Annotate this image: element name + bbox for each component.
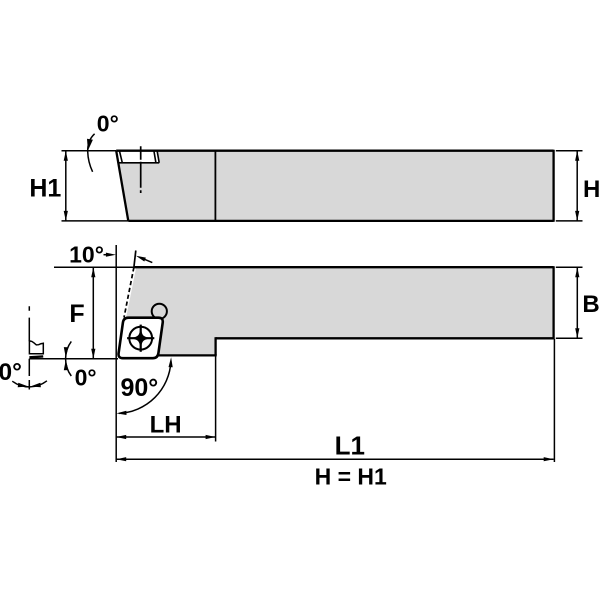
lower view slant edge extension above top xyxy=(134,251,136,268)
svg-text:0°: 0° xyxy=(97,111,119,137)
svg-text:B: B xyxy=(582,291,599,318)
upper view insert pocket notch xyxy=(117,151,160,163)
dimension H extension lines xyxy=(556,150,583,152)
10 degree angle callout xyxy=(69,242,152,268)
svg-text:0°: 0° xyxy=(0,359,22,386)
end view of cutting edge (left) xyxy=(29,341,43,357)
upper view right end edge xyxy=(552,150,554,222)
lower view shank bottom edge xyxy=(216,337,554,339)
svg-text:0°: 0° xyxy=(75,365,97,391)
svg-text:LH: LH xyxy=(150,412,182,439)
clamp pin circle xyxy=(152,304,167,319)
upper view bottom edge xyxy=(128,220,553,222)
lower view hidden pocket edge (dashed) xyxy=(124,267,134,317)
0 degree rake angle callout (upper view) xyxy=(87,111,119,172)
svg-text:10°: 10° xyxy=(69,242,104,268)
insert centerline upper segment (vertical dash-dot) xyxy=(28,306,30,341)
lower view right end edge xyxy=(552,266,554,339)
dimension F line xyxy=(92,267,94,358)
lower view head step edge xyxy=(214,337,216,355)
svg-text:H = H1: H = H1 xyxy=(315,464,387,490)
lower view head bottom edge xyxy=(158,354,217,356)
lower view: tool body top profile xyxy=(120,267,554,355)
dimension B extension lines xyxy=(556,266,583,268)
extension line through insert tip (vertical) xyxy=(115,245,117,462)
svg-text:F: F xyxy=(69,300,84,328)
0 degree inclination arc (left) xyxy=(12,381,47,387)
90 degree lead angle arc xyxy=(119,362,171,414)
dimension LH line xyxy=(116,436,215,438)
svg-text:H1: H1 xyxy=(29,175,61,203)
F top extension line xyxy=(54,266,134,268)
dimension H1 line xyxy=(65,151,67,221)
lower view top edge xyxy=(134,266,554,268)
insert clamp screw (torx head) xyxy=(127,325,154,352)
svg-text:90°: 90° xyxy=(120,374,158,402)
upper view screw centerline xyxy=(140,146,142,193)
upper view top edge xyxy=(116,150,553,152)
upper view head-shank boundary line xyxy=(214,151,216,221)
dimension L1 line xyxy=(116,458,554,460)
dimension B line xyxy=(576,267,578,338)
upper view front slant edge xyxy=(116,151,128,221)
svg-text:L1: L1 xyxy=(335,430,365,460)
dimension H line xyxy=(576,151,578,221)
extension line at head step (vertical) xyxy=(215,356,217,442)
svg-text:H: H xyxy=(583,176,600,203)
tip reference line xyxy=(29,358,118,360)
0 degree side rake arc (at tip) xyxy=(66,341,72,376)
insert (rounded parallelogram) xyxy=(119,318,163,359)
insert centerline lower segment (vertical dash-dot) xyxy=(28,359,30,390)
extension line at shank end (vertical) xyxy=(553,339,555,462)
dimension H1 extension lines xyxy=(62,150,117,152)
upper view: tool body side profile xyxy=(116,151,553,221)
